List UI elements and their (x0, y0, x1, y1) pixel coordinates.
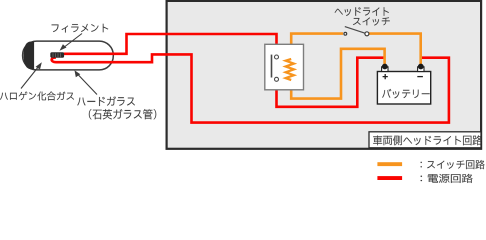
relay upper contact (275, 55, 279, 59)
bulb black end cap (halogen gas side) (24, 42, 34, 70)
leader arrow: halogen gas label to bulb cap (21, 62, 42, 88)
vehicle-side headlight circuit enclosure box (167, 1, 482, 149)
wire: red power circuit, relay lower contact to battery positive (277, 58, 385, 107)
relay movable contact arm (271, 55, 273, 78)
legend label: power circuit (：電源回路) (421, 174, 473, 183)
legend swatch: power circuit (red) (377, 176, 402, 180)
label: battery (バッテリー) (382, 89, 429, 99)
label: headlight (ヘッドライト) (335, 7, 389, 16)
label: vehicle-side headlight circuit (車両側ヘッドライト回路) (373, 135, 482, 145)
wire: orange switch circuit, relay coil bottom to battery positive post (291, 49, 384, 99)
caption box: vehicle-side headlight circuit (369, 132, 481, 148)
legend label: switch circuit (：スイッチ回路) (421, 160, 485, 169)
battery negative post (418, 64, 424, 72)
label: hard glass (ハードガラス) (77, 96, 135, 106)
label: switch (スイッチ) (353, 17, 390, 25)
wire: red power circuit, filament top lead to relay upper contact (60, 34, 277, 57)
battery body (377, 72, 430, 105)
battery plus sign (383, 74, 388, 79)
relay box (265, 44, 304, 90)
headlight switch left contact (344, 32, 347, 35)
battery minus sign (417, 76, 423, 78)
label: halogen gas (ハロゲン化合ガス) (0, 92, 74, 101)
relay lower contact (275, 77, 279, 81)
relay coil winding (286, 59, 294, 80)
label: quartz glass tube (（石英ガラス管）) (89, 109, 156, 119)
label: filament (フィラメント) (52, 24, 109, 33)
wire: red power circuit, filament return lead to battery negative (bottom loop) (52, 54, 449, 122)
wire: orange switch circuit, switch right contact to battery negative post (369, 34, 421, 65)
filament coil (50, 52, 64, 58)
halogen bulb glass envelope (hard glass / quartz tube) (23, 41, 114, 70)
battery positive post (382, 64, 388, 72)
leader arrow: hard glass label to bulb envelope (75, 70, 98, 94)
headlight switch right contact (365, 32, 369, 36)
legend swatch: switch circuit (orange) (377, 162, 402, 166)
wire: orange switch circuit, relay coil top to headlight switch left contact (291, 34, 343, 59)
headlight switch lever (open) (345, 27, 367, 34)
leader arrow: filament label to filament (60, 34, 83, 51)
